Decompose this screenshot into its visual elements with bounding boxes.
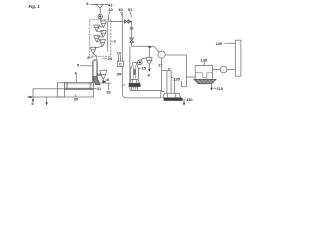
preheater dashed box 2 [90,20,111,56]
leader 130 line [203,62,205,66]
svg-text:31: 31 [97,86,102,91]
leader 20 dash [103,57,107,59]
svg-text:40: 40 [118,7,123,12]
leader 39 line [107,84,109,91]
cyclone stage 5 (right) [100,39,106,46]
wire diagonal into fan [154,46,159,51]
vessel dark band [164,98,183,101]
leader 15 dash [139,67,141,69]
wire valve to preheater [99,19,101,21]
leader 110 dash [183,99,186,101]
bag filter internals [195,73,213,78]
wire fan down leg [162,58,165,91]
node junction dot left [96,4,97,5]
svg-text:110: 110 [217,86,224,91]
svg-text:51: 51 [128,7,133,12]
svg-text:30: 30 [74,96,79,101]
svg-text:8: 8 [86,1,89,6]
leader 2 dash [111,40,113,42]
arrowhead discharge left [27,96,31,99]
wire cyclone 6 to calciner [96,56,98,60]
leader 5 line [80,65,92,67]
wire clinker drop 2 [46,97,48,103]
svg-text:C: C [119,62,122,67]
wire preheater exit duct [108,21,125,23]
controller box C [117,61,123,66]
calciner vessel 5 [93,60,98,83]
small dust cyclone [147,57,152,64]
leader 6 line [75,75,77,82]
cyclone stage 4 (left) [94,36,100,42]
vessel pedestal [163,93,181,97]
flask inner lines [133,65,135,79]
arrowhead drop 2 [45,102,47,105]
arrowhead to fan [149,46,152,49]
wire feed drop right [100,5,102,9]
kiln ring left [66,82,69,89]
svg-text:110: 110 [186,97,193,102]
wire clinker drop 1 [32,97,34,100]
wire cyclone dust drop [148,65,150,70]
arrowhead hopper dust [210,88,212,91]
wire vessel dust drop [183,101,185,104]
arrowhead on duct [129,20,132,22]
wire vessel side line [174,79,176,94]
svg-text:30: 30 [97,72,102,77]
fan 2 circle [220,66,227,73]
leader 40 curve [121,12,123,17]
cyclone stage 6 (left) [90,47,96,53]
cyclone stage 1 (right) [101,21,107,27]
kiln inlet seal hatched [93,77,101,85]
kiln ring right [89,82,92,89]
wire from controller down to bend [122,66,161,98]
rotary kiln 6 shell [65,82,94,89]
svg-text:10: 10 [117,51,122,56]
svg-text:100: 100 [216,41,223,46]
damper valve on exit duct [125,20,129,24]
svg-text:135: 135 [173,76,180,81]
svg-text:15: 15 [141,66,146,71]
vessel top cap [168,68,170,70]
leader 51 curve [130,12,132,17]
wire stub ducts into controller [118,55,120,61]
arrowhead funnel to kiln [102,80,106,84]
arrowhead dust drop [148,69,150,72]
wire channel right edge [160,90,162,98]
kiln head box [57,83,64,97]
wire funnel spout [102,79,104,81]
wire internal riser [107,22,109,51]
flask pedestal [130,79,140,83]
wire main down leg [186,55,188,87]
leader 100 line [225,42,236,44]
svg-text:5: 5 [77,62,80,67]
leader 135 dash [171,76,173,78]
svg-text:20: 20 [108,56,113,61]
flask inner body [133,69,135,75]
wire cyclone riser [148,48,150,57]
leader 8 dash [90,57,92,59]
svg-text:30: 30 [108,7,113,12]
flask outlet box [132,87,138,90]
wire hopper dust drop [211,84,213,89]
wire feed drop left [96,5,100,9]
kiln inlet duct stub [98,82,111,85]
arrow tick on downcomer [122,84,125,85]
rotary valve on flask (circle with dot) [137,60,142,65]
leader 31 dash [94,87,96,89]
wire long vertical 40-line [121,12,123,61]
wire inner vertical 51-line [129,46,131,90]
svg-text:8: 8 [148,72,151,77]
wire fan2 to stack [227,69,235,71]
wire branch to vessel [182,81,187,86]
wire cooler discharge left [28,96,33,98]
rotary valve symbol (circle with dot) [98,14,102,18]
arrowhead drop 1 [32,99,34,102]
svg-text:27: 27 [158,63,163,68]
wire cyclone connectors [100,20,101,23]
cyclone stage 3 (right) [101,31,107,37]
svg-text:8: 8 [107,77,110,82]
fan 27 circle [158,51,165,58]
leader 110 dash [213,87,216,89]
wire down leg to corner [132,42,154,46]
adsorber vessel 135 [167,70,171,93]
bag filter hopper hatched [194,79,216,83]
svg-text:39: 39 [106,89,111,94]
leader 30 curve [108,12,109,21]
leader 30 dash [120,73,122,75]
wire branch to bag filter [187,76,196,78]
wire duct down leg [131,22,133,38]
bypass flask vessel [131,62,139,79]
wire feed vertical [99,8,101,14]
leader 30 line [75,95,77,97]
butterfly valve on down leg [130,38,134,42]
svg-text:2: 2 [114,39,117,44]
cyclone stage 2 (left) [94,25,100,31]
leader 8 dash [105,79,106,81]
wire fan leg to vessel top [162,70,167,72]
stack 100 [235,40,241,76]
wire flask to cyclone arc [141,58,147,60]
feed funnel 30 by calciner [100,70,107,79]
node junction dot right [102,4,103,5]
wire channel top edge [130,89,161,91]
bag filter box 130 [195,66,213,80]
wire fan outlet right [165,54,186,56]
svg-text:Fig. 1: Fig. 1 [29,4,41,9]
wire top feed line [90,4,108,6]
arrowhead vessel dust [183,103,185,106]
clinker cooler box [33,89,94,97]
wire duct to corner [129,21,132,23]
flask dark band [129,83,141,87]
svg-text:9: 9 [31,101,34,106]
wire filter to fan2 [213,69,220,71]
